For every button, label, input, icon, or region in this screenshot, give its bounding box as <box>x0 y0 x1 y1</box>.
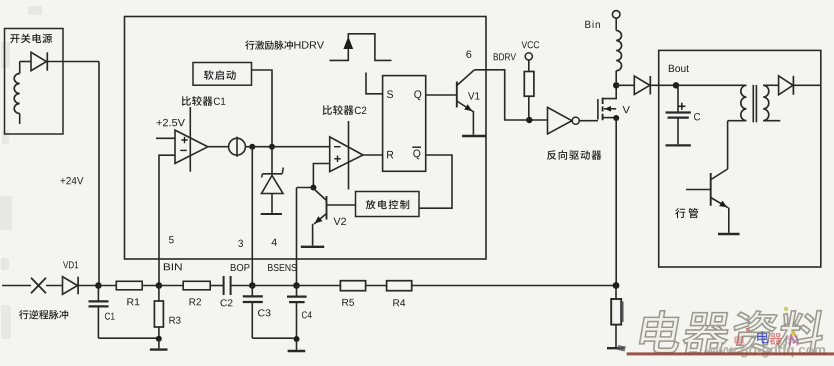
label 比较器C2 <box>323 105 332 115</box>
label VD1 <box>63 261 68 268</box>
node BOP <box>249 282 256 289</box>
output stage box <box>659 50 821 267</box>
label 软启动 <box>204 70 214 80</box>
MOSFET source wire down <box>615 118 617 286</box>
node BIN <box>156 282 163 289</box>
label 反向驱动器 <box>547 150 556 160</box>
transistor 行管 <box>727 121 729 169</box>
node BOP junction <box>249 144 255 150</box>
Bin terminal <box>612 11 620 19</box>
node R3 ground <box>156 336 162 342</box>
faint scan smudges <box>0 6 42 339</box>
current source symbol <box>208 146 229 148</box>
node BSENS <box>293 282 300 289</box>
diode Bin to Bout <box>616 84 634 86</box>
label pin 4 <box>271 239 276 246</box>
C2 output wire to latch R <box>363 154 383 156</box>
wire soft start to zener node <box>252 70 273 147</box>
node zener junction <box>269 144 275 150</box>
inductor in supply <box>14 74 20 114</box>
sense resistor <box>615 286 617 300</box>
ground 行管 <box>718 233 740 235</box>
wire to zener node <box>252 146 272 148</box>
resistor R4 <box>387 281 412 291</box>
node BDRV junction <box>526 117 532 123</box>
capacitor C2 <box>223 276 225 295</box>
ground V1 <box>462 135 486 137</box>
watermark url <box>705 347 716 354</box>
label V2 <box>334 218 341 225</box>
C2 noninverting input wire <box>313 164 329 188</box>
isolation X symbol <box>31 278 46 294</box>
HDRV pulse waveform <box>330 34 392 61</box>
transistor V2 <box>326 196 328 220</box>
op-amp C2 <box>330 137 363 172</box>
op-amp C1 <box>175 130 208 163</box>
resistor VCC pull-up <box>524 72 534 97</box>
comparator C2 strobe line <box>348 121 350 190</box>
SR latch box <box>383 76 426 172</box>
latch Q output wire <box>426 94 457 96</box>
wire to comparator C2 <box>272 146 330 148</box>
diode VD1 <box>63 277 78 295</box>
watermark stray mark <box>620 302 623 323</box>
inverter driver <box>548 107 572 133</box>
node Bout <box>673 82 679 88</box>
inductor at Bin <box>616 31 621 71</box>
label V (MOSFET) <box>623 106 630 113</box>
label pin 6 <box>466 50 471 57</box>
latch S input wire <box>366 73 383 94</box>
wire BSENS to V2 node <box>297 187 314 189</box>
diode secondary <box>779 76 793 95</box>
ground (sense) <box>607 347 624 349</box>
capacitor C1 <box>97 286 99 301</box>
MOSFET V <box>597 99 599 120</box>
diode in supply <box>19 62 21 74</box>
comparator C1 strobe line <box>189 107 191 172</box>
label Bout <box>669 65 674 72</box>
resistor R1 <box>98 285 116 287</box>
wire +24V rail <box>47 61 99 63</box>
watermark red line <box>627 352 834 355</box>
flyback input wire <box>2 285 31 287</box>
zener diode <box>271 147 273 174</box>
soft start box <box>193 63 252 86</box>
capacitor C3 <box>251 286 253 296</box>
BDRV wire pin 6 <box>474 70 547 120</box>
node +24V / VD1 <box>95 282 102 289</box>
VCC terminal <box>522 41 528 48</box>
label 放电控制 <box>366 200 376 210</box>
rail Bout to transformer <box>676 84 746 86</box>
ground (R3/C1) <box>158 339 160 349</box>
node sense <box>613 282 620 289</box>
wire <box>46 285 63 287</box>
label C <box>694 113 700 120</box>
label +2.5V <box>157 120 162 125</box>
capacitor C4 <box>296 286 298 296</box>
C1 inverting input wire / pin 5 <box>159 155 175 285</box>
label pin 3 <box>238 240 243 247</box>
transformer T <box>741 85 747 120</box>
wire Qbar to discharge control <box>419 155 452 208</box>
label +24V <box>60 178 65 183</box>
IC boundary box <box>125 17 487 260</box>
label V1 <box>468 92 474 99</box>
pin 4 wire <box>296 188 298 286</box>
watermark 电器资料 <box>638 311 684 353</box>
resistor R2 <box>159 285 183 287</box>
label 行激励脉冲HDRV <box>245 41 254 50</box>
label 开关电源 <box>10 34 19 43</box>
label 比较器C1 <box>182 96 191 106</box>
C1 noninverting input wire <box>156 137 175 139</box>
discharge control box <box>356 192 420 217</box>
pulse arrow <box>343 37 353 50</box>
label BDRV <box>494 53 498 60</box>
latch pin labels <box>387 90 393 98</box>
node C4 ground <box>294 336 300 342</box>
watermark color logo bits <box>734 335 744 346</box>
label pin 5 <box>169 236 174 243</box>
ground V2 <box>301 246 324 248</box>
resistor R5 <box>297 285 341 287</box>
wire BOP to BSENS node <box>252 285 296 287</box>
label 行管 <box>675 208 685 218</box>
resistor R3 <box>158 286 160 302</box>
transistor V1 <box>456 82 458 108</box>
node V2 collector <box>310 185 316 191</box>
switching power supply box <box>5 29 64 135</box>
label 行逆程脉冲 <box>19 310 28 319</box>
pin 3 wire <box>251 147 253 286</box>
node Bin/drain <box>613 82 619 88</box>
ground (C4/C3) <box>296 339 298 350</box>
capacitor C <box>677 85 679 111</box>
